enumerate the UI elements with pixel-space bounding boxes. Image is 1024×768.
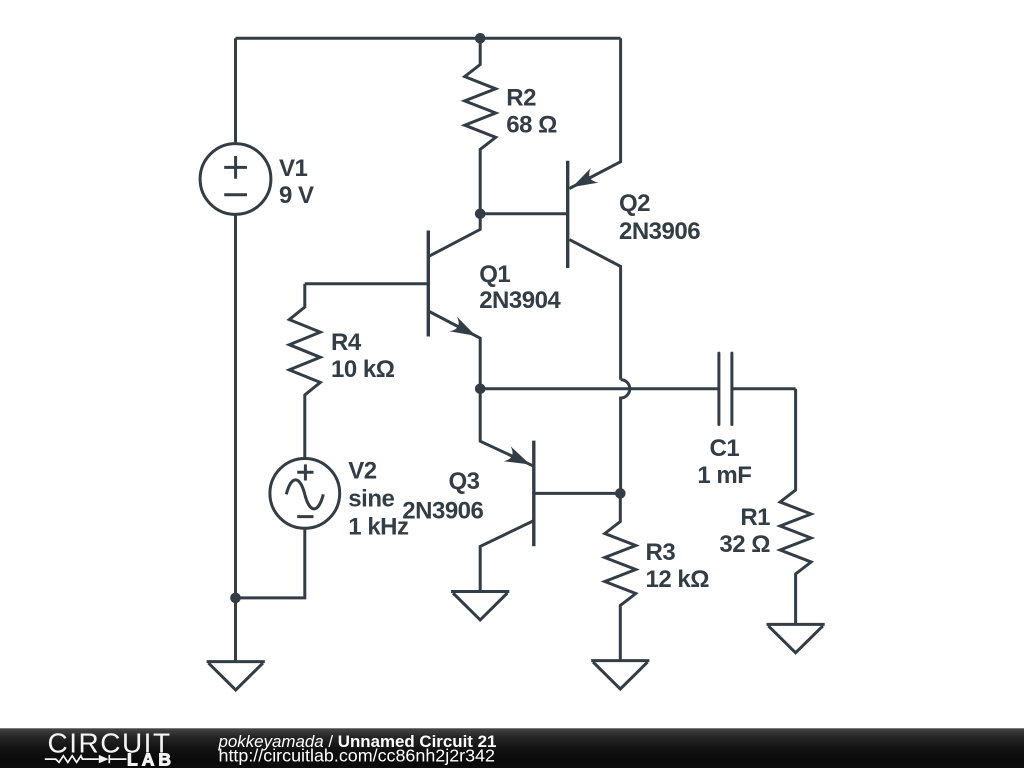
node left bottom junction [230, 593, 241, 604]
resistor R1 [780, 389, 811, 625]
wire output net [480, 387, 719, 390]
wire V2 bottom to left rail [236, 528, 305, 598]
wire Q2 base [480, 212, 566, 215]
svg-text:9 V: 9 V [279, 182, 314, 209]
svg-text:2N3904: 2N3904 [479, 287, 561, 314]
svg-text:LAB: LAB [127, 749, 175, 768]
svg-text:R3: R3 [646, 539, 676, 566]
node top junction [475, 33, 486, 44]
wire top rail [236, 37, 621, 40]
svg-text:V1: V1 [279, 155, 308, 182]
wire hop over output net [621, 380, 630, 494]
svg-text:2N3906: 2N3906 [619, 218, 700, 245]
logo resistor-diode squiggle [45, 755, 127, 763]
voltage source V1 [200, 144, 271, 215]
svg-text:1 mF: 1 mF [697, 462, 751, 489]
ground under V1 [207, 662, 265, 690]
svg-text:R4: R4 [331, 329, 362, 356]
svg-text:32 Ω: 32 Ω [719, 531, 770, 558]
svg-text:Q3: Q3 [449, 468, 480, 495]
transistor Q1 [428, 214, 480, 389]
svg-text:1 kHz: 1 kHz [348, 514, 409, 541]
voltage source V2 [270, 459, 340, 529]
svg-text:V2: V2 [348, 457, 377, 484]
svg-text:2N3906: 2N3906 [402, 497, 483, 524]
svg-text:C1: C1 [710, 435, 740, 462]
resistor R4 [289, 284, 320, 459]
svg-text:http://circuitlab.com/cc86nh2j: http://circuitlab.com/cc86nh2j2r342 [219, 745, 496, 765]
node Q1 emitter junction [475, 384, 486, 395]
node R3 top junction [615, 488, 626, 499]
ground under Q3 [451, 592, 509, 620]
svg-text:10 kΩ: 10 kΩ [331, 356, 395, 383]
ground under R1 [767, 624, 825, 652]
wire R4 to Q1 base [305, 282, 429, 285]
svg-text:sine: sine [348, 485, 394, 512]
capacitor C1 [719, 353, 796, 424]
ground under R3 [591, 661, 649, 689]
resistor R2 [465, 38, 496, 214]
resistor R3 [605, 493, 636, 660]
footer bar [0, 728, 1024, 768]
transistor Q3 [480, 389, 534, 592]
svg-text:R2: R2 [506, 84, 536, 111]
svg-text:Q1: Q1 [479, 261, 510, 288]
node R2 bottom junction [475, 209, 486, 220]
wire left rail lower [234, 214, 237, 661]
wire Q3 base [534, 492, 621, 495]
transistor Q2 [568, 38, 621, 379]
svg-text:68 Ω: 68 Ω [506, 112, 557, 139]
svg-text:12 kΩ: 12 kΩ [646, 566, 710, 593]
svg-text:Q2: Q2 [619, 190, 650, 217]
svg-text:R1: R1 [740, 504, 770, 531]
wire left rail upper [234, 38, 237, 143]
